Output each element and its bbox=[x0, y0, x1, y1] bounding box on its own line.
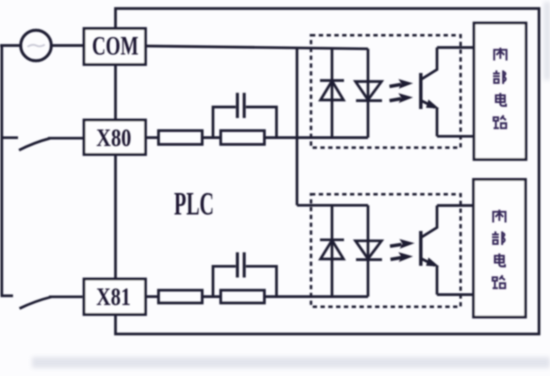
U2 light arrow 2 bbox=[391, 253, 412, 261]
svg-text:X81: X81 bbox=[96, 284, 131, 311]
U2 collector rail to internal circuit bbox=[437, 204, 474, 207]
svg-text:X80: X80 bbox=[96, 125, 131, 152]
capacitor C2 right lead bbox=[246, 266, 277, 296]
svg-text:PLC: PLC bbox=[174, 186, 214, 222]
U2 light arrow 1 bbox=[390, 240, 413, 248]
svg-text:COM: COM bbox=[92, 32, 139, 61]
wire: COM bus from COM terminal to optocoupler LEDs bbox=[146, 46, 369, 49]
wire: R1 to R2 bbox=[202, 136, 221, 139]
wire: switch S1 to X80 terminal bbox=[48, 137, 83, 140]
U1 emitter arrowhead bbox=[426, 100, 439, 109]
U1 emitter rail to internal circuit bbox=[437, 135, 474, 138]
U2 phototransistor base bar bbox=[419, 231, 422, 266]
U1 diode D1 (up) cathode bar bbox=[320, 79, 344, 82]
internal circuit 1 vertical text (nei bu dian lu) bbox=[493, 48, 506, 129]
wire: COM bus drop to optocoupler 2 bbox=[296, 48, 299, 206]
U2 emitter rail to internal circuit bbox=[437, 293, 474, 296]
U2 phototransistor collector stroke bbox=[421, 206, 437, 238]
capacitor C2 plates bbox=[236, 252, 239, 277]
U1 LED branch right vertical bbox=[367, 49, 370, 138]
U1 collector rail to internal circuit bbox=[437, 46, 474, 49]
wire: R3 to R4 bbox=[202, 295, 221, 298]
switch S1 stub from rail bbox=[1, 136, 19, 139]
U2 emitter lead down bbox=[436, 266, 439, 295]
wire: R2 node to optocoupler 1 LED bottom bus bbox=[264, 136, 368, 139]
U2 LED top bus bbox=[297, 204, 368, 207]
U1 phototransistor emitter stroke bbox=[421, 101, 435, 108]
faint mark inside source circle bbox=[28, 45, 45, 47]
U2 emitter arrowhead bbox=[426, 258, 439, 267]
wire: X81 to resistor R3 bbox=[146, 295, 159, 298]
terminal box X81 bbox=[84, 279, 146, 315]
capacitor C1 right lead bbox=[246, 107, 277, 138]
capacitor C2 left lead bbox=[213, 266, 236, 296]
capacitor C1 left lead bbox=[213, 107, 236, 138]
wire: rail to source circle bbox=[0, 44, 21, 47]
wire: R4 node to optocoupler 2 LED bottom bus bbox=[264, 295, 368, 298]
switch S2 stub from rail bbox=[1, 294, 14, 297]
wire: source circle to COM terminal bbox=[51, 44, 84, 47]
switch S2 blade (open) bbox=[20, 297, 52, 309]
wire: X80 to resistor R1 bbox=[146, 136, 159, 139]
U2 diode D3 triangle bbox=[321, 240, 344, 259]
U2 diode D4 cathode bar bbox=[356, 258, 382, 261]
wire: switch S2 to X81 terminal bbox=[49, 295, 83, 298]
resistor R2 bbox=[221, 131, 265, 145]
resistor R3 bbox=[159, 290, 203, 303]
U2 diode D3 (up) cathode bar bbox=[320, 238, 344, 241]
U2 LED branch right vertical bbox=[367, 205, 370, 296]
internal circuit box 1 bbox=[474, 23, 526, 160]
U1 emitter lead down bbox=[436, 108, 439, 137]
U2 phototransistor emitter stroke bbox=[421, 259, 435, 266]
U1 light arrow 1 bbox=[390, 80, 412, 88]
scan artifact: right edge smudge bbox=[544, 2, 550, 80]
U1 diode D2 cathode bar bbox=[356, 99, 382, 102]
U1 light arrow 2 bbox=[390, 94, 412, 102]
resistor R1 bbox=[159, 131, 203, 145]
internal circuit 2 vertical text (nei bu dian lu) bbox=[492, 210, 505, 289]
switch S1 blade (open) bbox=[19, 138, 50, 150]
resistor R4 bbox=[221, 290, 265, 303]
U1 phototransistor collector stroke bbox=[421, 48, 437, 80]
U2 diode D4 (down) triangle bbox=[356, 241, 382, 259]
optocoupler U1 dashed box bbox=[311, 35, 461, 147]
terminal box COM bbox=[84, 29, 146, 65]
optocoupler U2 dashed box bbox=[311, 194, 461, 306]
U2 LED branch left vertical bbox=[331, 205, 334, 296]
U1 diode D1 triangle bbox=[321, 81, 344, 100]
terminal box X80 bbox=[84, 120, 146, 155]
U1 phototransistor base bar bbox=[419, 73, 422, 109]
wire: left supply rail (vertical) bbox=[0, 46, 3, 296]
scan artifact: bottom smudge bbox=[32, 357, 550, 368]
capacitor C1 plates bbox=[236, 93, 239, 118]
power source circle bbox=[21, 30, 52, 61]
U1 LED branch left vertical bbox=[331, 49, 334, 138]
internal circuit box 2 bbox=[474, 179, 526, 317]
U1 diode D2 (down) triangle bbox=[356, 82, 382, 100]
PLC enclosure outer box bbox=[116, 9, 540, 335]
